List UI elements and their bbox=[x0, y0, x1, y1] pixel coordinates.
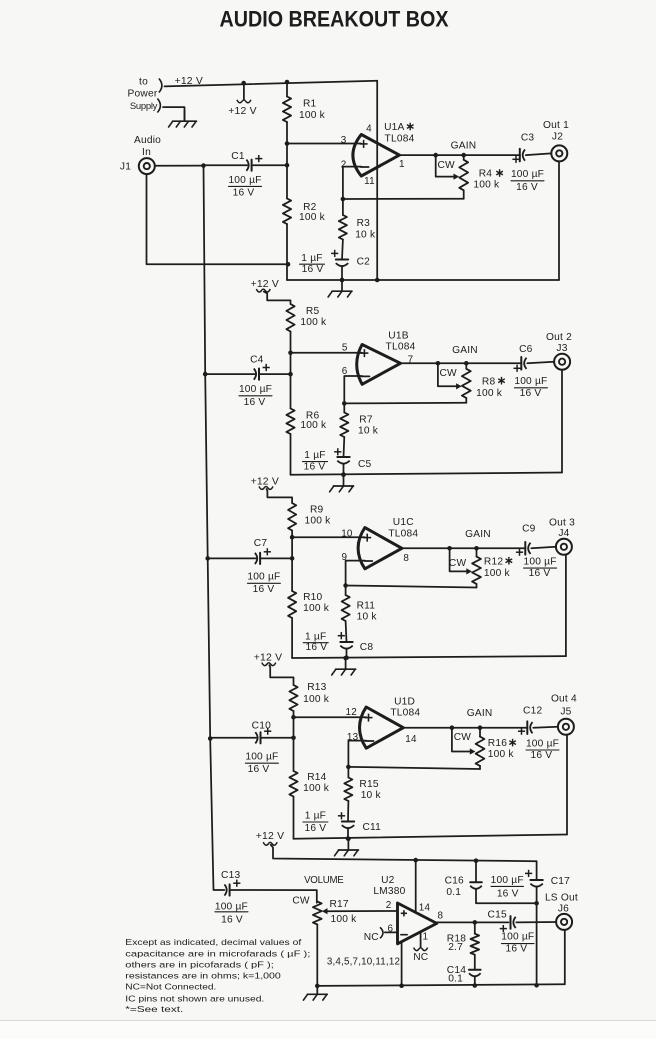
svg-text:1 µF: 1 µF bbox=[305, 631, 326, 642]
svg-text:16 V: 16 V bbox=[302, 264, 324, 275]
potentiometer R8 100k bbox=[462, 363, 471, 403]
svg-text:R1: R1 bbox=[303, 99, 317, 110]
svg-text:16 V: 16 V bbox=[305, 823, 327, 834]
polarity + of C7 bbox=[264, 548, 271, 555]
label Out 2 bbox=[546, 332, 572, 343]
resistor R13 100k bbox=[289, 685, 297, 711]
pin label 1 bbox=[399, 159, 405, 170]
node R18 tap bbox=[473, 920, 478, 925]
svg-text:VOLUME: VOLUME bbox=[304, 875, 344, 886]
label R6 bbox=[306, 410, 320, 421]
wire +12V feed channel3 bbox=[267, 489, 293, 503]
svg-text:11: 11 bbox=[364, 176, 375, 187]
svg-text:2: 2 bbox=[386, 900, 392, 911]
node wiper junction channel1 bbox=[433, 153, 438, 158]
svg-text:Out 2: Out 2 bbox=[546, 332, 572, 343]
label J4 bbox=[558, 528, 569, 539]
svg-text:13: 13 bbox=[347, 732, 359, 743]
wire C4 to bias node bbox=[259, 373, 291, 375]
label NC pin1 bbox=[413, 952, 428, 963]
svg-text:R13: R13 bbox=[307, 682, 326, 693]
wire opamp output channel4 bbox=[403, 727, 527, 729]
svg-text:16 V: 16 V bbox=[520, 388, 542, 399]
svg-text:5: 5 bbox=[342, 343, 348, 354]
label +12 V channel4 bbox=[254, 653, 282, 664]
svg-text:+12 V: +12 V bbox=[251, 477, 279, 488]
label +12 V channel1 bbox=[228, 106, 256, 117]
wire opamp output channel3 bbox=[402, 547, 525, 549]
wire +12V rail corner into pin4 bbox=[376, 81, 378, 82]
svg-text:3: 3 bbox=[341, 135, 347, 146]
label J6 bbox=[558, 904, 569, 915]
label C2 value bbox=[300, 253, 325, 275]
svg-text:R5: R5 bbox=[306, 306, 320, 317]
wire wiper channel3 bbox=[450, 548, 467, 571]
resistor R6 100k bbox=[286, 409, 294, 435]
svg-text:NC: NC bbox=[364, 932, 379, 943]
wire C1 to bias node bbox=[252, 164, 287, 166]
resistor R5 100k bbox=[286, 304, 294, 332]
node pin 11 at ground rail bbox=[375, 278, 380, 283]
wire C6 to jack bbox=[527, 362, 554, 364]
label R3 value bbox=[355, 229, 376, 240]
wire C5 to ground rail bbox=[343, 464, 345, 475]
svg-text:U2: U2 bbox=[381, 875, 395, 886]
label J3 bbox=[556, 343, 567, 354]
ground power supply bbox=[169, 110, 197, 127]
wiper arrow R17 bbox=[322, 908, 328, 914]
svg-text:Supply: Supply bbox=[130, 101, 158, 112]
label C3 bbox=[521, 133, 535, 144]
wire feedback return channel3 bbox=[346, 586, 477, 588]
svg-text:Audio: Audio bbox=[134, 135, 161, 146]
pin label 2 U2 bbox=[386, 900, 392, 911]
svg-text:CW: CW bbox=[454, 732, 472, 743]
svg-text:100 k: 100 k bbox=[305, 515, 332, 526]
capacitor C1 100uF bbox=[246, 160, 251, 171]
svg-text:100 k: 100 k bbox=[488, 749, 515, 760]
svg-text:4: 4 bbox=[366, 124, 372, 135]
wire U2 ground pins bbox=[401, 942, 403, 986]
capacitor C10 100uF bbox=[255, 732, 260, 743]
label C17 value bbox=[491, 875, 524, 900]
svg-text:R11: R11 bbox=[357, 601, 376, 612]
svg-text:C1: C1 bbox=[231, 151, 245, 162]
label VOLUME bbox=[304, 875, 344, 886]
wire bias mid channel2 bbox=[290, 332, 292, 409]
wire wiper channel2 bbox=[438, 363, 457, 386]
svg-text:16 V: 16 V bbox=[516, 182, 538, 193]
label to Power Supply bbox=[128, 77, 158, 112]
svg-text:CW: CW bbox=[438, 160, 456, 171]
svg-text:10 k: 10 k bbox=[355, 229, 376, 240]
label R14 value bbox=[303, 783, 330, 794]
polarity + of C10 bbox=[264, 728, 271, 735]
label R2 bbox=[303, 202, 317, 213]
svg-text:2.7: 2.7 bbox=[448, 942, 463, 953]
wire C7 to bias node bbox=[260, 557, 292, 559]
wire bus to C7 bbox=[208, 557, 256, 559]
svg-text:C6: C6 bbox=[519, 344, 533, 355]
svg-text:10: 10 bbox=[341, 529, 353, 540]
svg-text:CW: CW bbox=[449, 558, 467, 569]
node C11 at ground rail bbox=[346, 836, 351, 841]
label R13 bbox=[307, 682, 326, 693]
label R16 bbox=[488, 738, 516, 749]
wire bus to C10 bbox=[210, 737, 256, 739]
node C16 C17 junction bbox=[534, 901, 539, 906]
wire C17 to ground rail bbox=[536, 887, 538, 985]
svg-text:R10: R10 bbox=[303, 592, 322, 603]
svg-text:others are in picofarads ( pF: others are in picofarads ( pF ); bbox=[125, 960, 273, 970]
svg-text:J5: J5 bbox=[560, 706, 571, 717]
label C8 bbox=[360, 642, 374, 653]
label U2 bbox=[381, 875, 395, 886]
svg-text:C17: C17 bbox=[551, 876, 570, 887]
label C5 bbox=[358, 459, 372, 470]
node pin14 supply tap bbox=[413, 858, 418, 863]
wire LM380 ground rail bbox=[317, 984, 565, 986]
label R8 value bbox=[476, 388, 503, 399]
svg-text:capacitance are in microfarads: capacitance are in microfarads ( µF ); bbox=[125, 948, 310, 958]
label C10 value bbox=[245, 752, 278, 775]
capacitor C12 100uF bbox=[527, 721, 532, 734]
svg-text:16 V: 16 V bbox=[306, 642, 328, 653]
svg-text:NC: NC bbox=[413, 952, 428, 963]
label C12 value bbox=[526, 738, 559, 761]
wire pin14 supply bbox=[415, 860, 417, 912]
svg-text:R9: R9 bbox=[310, 504, 324, 515]
label R9 value bbox=[305, 515, 332, 526]
wire pin 3 to opamp bbox=[287, 143, 361, 145]
wiper arrow channel2 bbox=[456, 383, 462, 389]
wire wiper channel1 bbox=[436, 155, 455, 177]
label +12 V channel2 bbox=[251, 279, 279, 290]
svg-text:C2: C2 bbox=[357, 257, 371, 268]
capacitor C2 1uF bbox=[336, 260, 348, 267]
label U2 ground pins 3,4,5,7,10,11,12 bbox=[327, 956, 400, 967]
polarity + of C8 bbox=[338, 632, 345, 639]
capacitor C7 100uF bbox=[255, 553, 260, 564]
bracket pin 6 NC bbox=[380, 927, 383, 938]
wire R18 to C14 bbox=[474, 955, 476, 970]
wire U2 output bbox=[437, 921, 509, 923]
svg-text:16 V: 16 V bbox=[497, 889, 519, 900]
svg-text:C12: C12 bbox=[523, 705, 542, 716]
svg-text:IC pins not shown are unused.: IC pins not shown are unused. bbox=[125, 993, 264, 1003]
svg-text:R14: R14 bbox=[307, 772, 326, 783]
wire pin 13 to feedback node bbox=[348, 741, 366, 767]
wire feedback return channel1 bbox=[343, 198, 464, 200]
label C8 value bbox=[303, 631, 328, 653]
wire C10 to bias node bbox=[261, 737, 294, 739]
label R13 value bbox=[303, 694, 330, 705]
connector bracket ground to power supply bbox=[157, 99, 160, 113]
op-amp U2 LM380 bbox=[398, 903, 437, 944]
label C5 value bbox=[303, 450, 328, 472]
wire wiper channel4 bbox=[452, 728, 471, 752]
label +12 V channel3 bbox=[251, 477, 279, 488]
label +12 V rail bbox=[175, 76, 203, 87]
node noninverting input channel1 bbox=[285, 141, 290, 146]
potentiometer R16 100k bbox=[476, 728, 485, 769]
svg-text:1 µF: 1 µF bbox=[305, 811, 326, 822]
potentiometer R12 100k bbox=[472, 548, 481, 587]
label C16 value bbox=[446, 887, 461, 898]
pin label 11 bbox=[364, 176, 375, 187]
wire C15 to jack J6 bbox=[516, 921, 556, 923]
polarity + of C12 bbox=[518, 728, 525, 735]
node bus at C10 bbox=[208, 736, 213, 741]
wire bias bottom channel2 bbox=[290, 434, 292, 475]
label R8 bbox=[482, 376, 505, 387]
wire +12V feed LM380 bbox=[271, 845, 537, 861]
potentiometer R4 100k bbox=[459, 155, 468, 199]
node coupling cap tap channel4 bbox=[291, 736, 296, 741]
label C14 value bbox=[448, 973, 463, 984]
ground channel2 bbox=[330, 473, 354, 492]
wire C13 to volume pot bbox=[230, 890, 317, 903]
wire bias mid channel1 bbox=[286, 122, 288, 199]
node GAIN channel2 bbox=[464, 361, 469, 366]
label R10 value bbox=[303, 603, 330, 614]
polarity + of C11 bbox=[338, 812, 345, 819]
wire pin 10 to opamp bbox=[292, 536, 365, 538]
wire C2 to ground rail bbox=[341, 267, 343, 280]
wire feedback return channel2 bbox=[344, 402, 466, 405]
svg-text:7: 7 bbox=[408, 355, 414, 366]
resistor R11 10k bbox=[342, 595, 350, 621]
label TL084 channel2 bbox=[386, 342, 416, 353]
capacitor C3 100uF bbox=[520, 149, 525, 162]
label TL084 channel1 bbox=[385, 134, 415, 145]
capacitor C13 100uF bbox=[224, 884, 229, 895]
label R12 value bbox=[484, 568, 511, 579]
node coupling cap tap channel1 bbox=[285, 163, 290, 168]
wire feedback to R7 bbox=[343, 403, 345, 412]
potentiometer R17 100k volume bbox=[313, 902, 322, 986]
connector +12V channel1 bbox=[237, 100, 251, 103]
wire J1 tip to input bus bbox=[155, 165, 204, 167]
polarity + of C17 bbox=[525, 870, 532, 877]
label R15 value bbox=[361, 790, 382, 801]
label J2 bbox=[552, 132, 563, 143]
label C6 value bbox=[514, 376, 547, 399]
node wiper junction channel2 bbox=[436, 361, 441, 366]
label R1 value bbox=[299, 110, 326, 121]
pin label 1 U2 bbox=[422, 932, 428, 943]
svg-text:+12 V: +12 V bbox=[175, 76, 203, 87]
label C12 bbox=[523, 705, 542, 716]
node bus at C4 bbox=[203, 372, 208, 377]
wire feedback to R11 bbox=[345, 586, 347, 596]
node C17 return at ground rail bbox=[534, 983, 539, 988]
svg-text:100 k: 100 k bbox=[331, 914, 358, 925]
jack J2 bbox=[551, 145, 567, 161]
svg-text:+12 V: +12 V bbox=[251, 279, 279, 290]
node U2 ground pins at rail bbox=[399, 983, 404, 988]
label C4 bbox=[250, 355, 264, 366]
wire opamp output channel2 bbox=[401, 362, 522, 364]
label NC pin6 bbox=[364, 932, 379, 943]
jack J4 bbox=[556, 539, 572, 555]
wire feedback to R15 bbox=[347, 767, 349, 778]
svg-text:R17: R17 bbox=[330, 899, 349, 910]
label R16 value bbox=[488, 749, 515, 760]
pin label 4 bbox=[366, 124, 372, 135]
svg-text:In: In bbox=[142, 147, 151, 158]
label R11 value bbox=[357, 611, 378, 622]
op-amp U1B bbox=[357, 345, 401, 385]
svg-text:CW: CW bbox=[292, 896, 310, 907]
svg-text:16 V: 16 V bbox=[529, 568, 551, 579]
node rail to R1 bbox=[285, 80, 290, 85]
svg-text:1 µF: 1 µF bbox=[301, 253, 322, 264]
node feedback junction channel4 bbox=[346, 765, 351, 770]
svg-text:1 µF: 1 µF bbox=[304, 450, 325, 461]
svg-text:C11: C11 bbox=[363, 822, 382, 833]
wire R11 to C8 bbox=[345, 621, 348, 642]
capacitor C5 1uF bbox=[337, 457, 349, 464]
label R11 bbox=[357, 601, 376, 612]
svg-text:100 k: 100 k bbox=[473, 179, 500, 190]
label C1 bbox=[231, 151, 245, 162]
polarity + of C1 bbox=[255, 155, 262, 162]
wire +12V feed channel2 bbox=[264, 292, 291, 304]
label CW channel2 bbox=[440, 368, 458, 379]
svg-text:+12 V: +12 V bbox=[228, 106, 256, 117]
wire pin 9 to feedback node bbox=[346, 561, 365, 586]
wire R7 to C5 bbox=[343, 437, 346, 457]
svg-text:0.1: 0.1 bbox=[446, 887, 461, 898]
pin label 7 bbox=[408, 355, 414, 366]
svg-text:C3: C3 bbox=[521, 133, 535, 144]
label GAIN channel2 bbox=[452, 345, 478, 356]
polarity + of C9 bbox=[516, 549, 523, 556]
wire J6 sleeve bbox=[564, 930, 566, 984]
connector +12V LM380 bbox=[263, 842, 277, 845]
svg-text:resistances are in ohms; k=1,0: resistances are in ohms; k=1,000 bbox=[125, 971, 281, 981]
label U1D bbox=[394, 696, 415, 707]
svg-text:C13: C13 bbox=[221, 870, 240, 881]
svg-text:R4: R4 bbox=[479, 169, 493, 180]
svg-text:100 µF: 100 µF bbox=[524, 557, 557, 568]
svg-text:100 µF: 100 µF bbox=[245, 752, 278, 763]
label C10 bbox=[252, 721, 271, 732]
label R18 value bbox=[448, 942, 463, 953]
pin label 6 U2 bbox=[387, 923, 393, 934]
svg-text:100 k: 100 k bbox=[484, 568, 511, 579]
svg-text:Out 1: Out 1 bbox=[543, 120, 569, 131]
jack J5 bbox=[558, 719, 574, 735]
resistor R10 100k bbox=[288, 591, 296, 618]
node wiper junction channel3 bbox=[447, 546, 452, 551]
wire C17 from rail bbox=[536, 861, 538, 880]
label C11 bbox=[363, 822, 382, 833]
svg-text:GAIN: GAIN bbox=[465, 529, 491, 540]
svg-text:100 k: 100 k bbox=[303, 603, 330, 614]
label R12 bbox=[484, 556, 512, 567]
wire C12 to jack bbox=[533, 726, 558, 729]
wire jack sleeve channel2 bbox=[561, 370, 563, 473]
label C14 bbox=[447, 965, 466, 976]
wire C9 to jack bbox=[531, 547, 556, 549]
resistor R1 100k bbox=[283, 97, 291, 123]
wire pin 12 to opamp bbox=[294, 716, 367, 718]
label C2 bbox=[357, 257, 371, 268]
polarity + of C4 bbox=[263, 364, 270, 371]
node GAIN channel4 bbox=[478, 725, 483, 730]
wire R17 wiper to pin2 bbox=[327, 910, 397, 912]
label C7 bbox=[254, 538, 268, 549]
wire feedback return channel4 bbox=[348, 767, 480, 769]
svg-text:3,4,5,7,10,11,12: 3,4,5,7,10,11,12 bbox=[327, 956, 400, 967]
node feedback junction channel3 bbox=[343, 583, 348, 588]
label R5 bbox=[306, 306, 320, 317]
wiper arrow channel3 bbox=[466, 568, 472, 574]
capacitor C11 1uF bbox=[342, 822, 354, 829]
node wiper junction channel4 bbox=[450, 725, 455, 730]
svg-text:LS Out: LS Out bbox=[545, 892, 578, 903]
label R14 bbox=[307, 772, 326, 783]
wire ground rail channel3 bbox=[292, 656, 566, 658]
jack J6 bbox=[556, 914, 572, 930]
wiper arrow channel1 bbox=[454, 174, 460, 180]
pin label 6 bbox=[342, 366, 348, 377]
svg-text:16 V: 16 V bbox=[248, 764, 270, 775]
resistor R15 10k bbox=[344, 778, 352, 802]
svg-text:R8: R8 bbox=[482, 376, 496, 387]
svg-text:6: 6 bbox=[342, 366, 348, 377]
connector bracket +12V to power supply bbox=[159, 79, 162, 93]
svg-text:10 k: 10 k bbox=[358, 425, 379, 436]
label R1 bbox=[303, 99, 317, 110]
svg-text:C7: C7 bbox=[254, 538, 268, 549]
svg-text:GAIN: GAIN bbox=[452, 345, 478, 356]
connector +12V channel3 bbox=[259, 486, 273, 489]
label C1 value bbox=[228, 175, 261, 199]
label C11 value bbox=[303, 811, 328, 834]
wire input signal bus bbox=[204, 166, 225, 890]
svg-text:U1B: U1B bbox=[388, 331, 408, 342]
resistor R14 100k bbox=[289, 771, 297, 797]
label C17 bbox=[551, 876, 570, 887]
node noninverting input channel4 bbox=[291, 715, 296, 720]
svg-text:10 k: 10 k bbox=[357, 611, 378, 622]
node C16 supply tap bbox=[474, 858, 479, 863]
node C5 at ground rail bbox=[341, 472, 346, 477]
node noninverting input channel2 bbox=[288, 350, 293, 355]
svg-text:TL084: TL084 bbox=[390, 708, 420, 719]
wire +12V feed channel4 bbox=[269, 665, 293, 685]
pin label 2 bbox=[341, 160, 347, 171]
svg-text:J6: J6 bbox=[558, 904, 569, 915]
pin label 9 bbox=[341, 552, 347, 563]
label +12 V LM380 bbox=[256, 831, 284, 842]
pin label 14 U2 bbox=[419, 902, 431, 913]
wire pin 1 stub bbox=[420, 933, 422, 947]
svg-text:C8: C8 bbox=[360, 642, 374, 653]
wire C11 to ground rail bbox=[347, 829, 349, 839]
svg-text:R12: R12 bbox=[484, 556, 503, 567]
node GAIN channel1 bbox=[461, 153, 466, 158]
label C9 bbox=[522, 523, 536, 534]
label C6 bbox=[519, 344, 533, 355]
label U1A bbox=[384, 122, 413, 133]
op-amp U1D bbox=[360, 707, 404, 748]
wire bias bottom channel4 bbox=[293, 797, 295, 839]
pin label 8 U2 bbox=[438, 911, 444, 922]
